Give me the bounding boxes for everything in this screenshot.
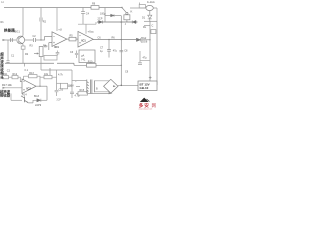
capacitor C2 coupling [34, 38, 36, 42]
svg-text:R2: R2 [43, 21, 47, 24]
svg-text:R3: R3 [30, 44, 34, 47]
wire vertical x105 [104, 8, 106, 22]
svg-text:IC1: IC1 [82, 39, 87, 43]
transformer secondary [93, 81, 95, 93]
op-amp IC2 polarity marks [23, 82, 25, 91]
wire vertical x72 [71, 70, 73, 92]
wire y83 link [57, 82, 61, 84]
wire pot bottom [40, 57, 42, 71]
wire vertical x8 [7, 40, 9, 61]
op-amp IC1b triangle [78, 31, 93, 47]
svg-text:J: J [125, 23, 127, 26]
wire vertical x41 bias feed [40, 8, 42, 41]
svg-text:+Ucc: +Ucc [88, 30, 95, 34]
resistor R13 feedback box [29, 75, 38, 78]
svg-text:接收器: 接收器 [0, 93, 11, 98]
wire 220V input [72, 81, 87, 87]
wire top rail right section [130, 7, 146, 9]
bridge plus mark [113, 85, 116, 87]
bridge rectifier diamond [104, 79, 118, 93]
box small mid-left [44, 56, 57, 61]
wire C2 to node [36, 39, 41, 41]
svg-text:BG3: BG3 [34, 95, 40, 98]
op-amp1 polarity marks [53, 37, 55, 44]
capacitor C7 vertical x109 [107, 40, 111, 58]
transistor BG3 [24, 97, 26, 103]
transformer B primary [87, 80, 89, 94]
svg-text:BG1: BG1 [15, 30, 21, 34]
node x41 y40 [40, 39, 41, 40]
svg-text:R1: R1 [1, 21, 5, 24]
wire to IC2 inv input [9, 77, 23, 81]
svg-text:R14: R14 [22, 93, 27, 96]
resistor R10 on mid bus [87, 64, 97, 68]
wire bridge to battery [118, 84, 138, 86]
wire relay drive bus y22 [97, 21, 138, 23]
wire y25.5 right stub [144, 25, 150, 27]
node output x121 [121, 39, 122, 40]
svg-text:头: 头 [0, 74, 4, 79]
svg-text:R5: R5 [70, 34, 74, 37]
svg-text:R15: R15 [80, 89, 85, 92]
wire y70 bus [41, 69, 72, 71]
wire lamp row y93.5 [76, 93, 78, 95]
svg-text:741: 741 [81, 58, 86, 62]
svg-text:R2: R2 [25, 53, 29, 56]
node bridge bus x150 [149, 84, 151, 86]
svg-text:R10: R10 [88, 61, 93, 64]
diode D3 on y15.5 [111, 14, 114, 17]
block RP box [79, 50, 95, 63]
svg-text:R12: R12 [13, 73, 18, 76]
tick below bus x24 [24, 63, 26, 66]
svg-text:0~1mA: 0~1mA [147, 1, 155, 4]
capacitor C5 mid [56, 51, 60, 56]
node bridge bus x121 [121, 85, 123, 87]
svg-text:47μ: 47μ [113, 50, 118, 53]
svg-text:2CP: 2CP [57, 99, 62, 101]
capacitor C6 left of box [75, 51, 78, 59]
transistor BG1 collector [19, 36, 23, 39]
resistor R5 series [69, 37, 76, 41]
node rail switch [121, 7, 122, 8]
relay J coil box [124, 15, 130, 20]
wire vertical x57 op-amp1 power [56, 8, 58, 32]
watermark logo black [140, 98, 149, 102]
op-amp2 polarity marks [79, 35, 81, 43]
wire vertical x150 [149, 21, 151, 81]
battery BT box [138, 81, 157, 91]
svg-text:C10: C10 [59, 89, 64, 92]
resistor R15 on y77 [44, 75, 52, 78]
svg-text:IC1: IC1 [55, 45, 60, 49]
resistor R11 box [3, 76, 9, 79]
wire box to x72 [68, 85, 73, 87]
svg-text:C9: C9 [125, 71, 129, 74]
capacitor C4 on x83 [81, 8, 85, 25]
wire vertical x56 lower [56, 76, 58, 90]
meter M ellipse [146, 5, 153, 10]
wire diode to corner [41, 99, 47, 101]
svg-text:R9: R9 [92, 3, 96, 6]
svg-text:RP: RP [44, 46, 48, 49]
capacitor C11 bars [70, 92, 74, 98]
transistor BG1 emitter [19, 41, 23, 44]
wire right border vertical [156, 21, 158, 85]
wire op-amp1 output [67, 38, 69, 40]
svg-text:100μ: 100μ [100, 12, 106, 15]
wire emitter row y100.3 [11, 99, 22, 101]
svg-text:1A: 1A [1, 1, 4, 4]
svg-text:换能器: 换能器 [4, 27, 15, 32]
wire y77 bus [40, 76, 57, 78]
capacitor C8 vertical x121 [119, 50, 123, 52]
wire IC2 plus input [3, 87, 23, 89]
svg-text:+U: +U [58, 28, 62, 32]
svg-text:C2: C2 [33, 35, 37, 38]
diode D5 series output [136, 38, 140, 41]
resistor R12 box [12, 76, 18, 79]
diode D4 on bus right end [132, 20, 136, 23]
resistor box top right [139, 5, 145, 8]
svg-text:www.duoan.net: www.duoan.net [139, 108, 153, 110]
wire secondary to bridge [94, 81, 110, 92]
op-amp IC1a triangle [52, 32, 67, 47]
diode D6 [37, 99, 41, 102]
svg-text:D1: D1 [142, 16, 146, 19]
wire to op-amp1 inverting input [41, 37, 52, 40]
wire IC2 output [36, 85, 47, 87]
wire y21 top right link [144, 20, 157, 22]
svg-text:RL: RL [143, 26, 147, 29]
box lower mid [61, 83, 68, 89]
wire down to transistor [46, 86, 48, 100]
plus mark above battery [149, 76, 152, 79]
wire diode to BG2 [141, 39, 150, 41]
op-amp2 power link y24 [78, 22, 96, 24]
svg-text:C8: C8 [124, 50, 128, 53]
wire op-amp2 power pin [85, 24, 87, 34]
node output x109 [108, 39, 109, 40]
svg-text:1μ: 1μ [100, 50, 103, 53]
svg-text:R17 10k: R17 10k [2, 83, 12, 87]
switch contact circle [126, 12, 128, 14]
svg-text:C: C [152, 24, 154, 27]
svg-text:2AP9: 2AP9 [35, 104, 42, 107]
wire diode to corner [149, 19, 151, 21]
capacitor C1 input [11, 38, 13, 42]
svg-text:220V: 220V [68, 85, 74, 88]
wire y15.5 link [105, 15, 121, 17]
wire mid bus y65 [74, 64, 121, 66]
resistor Re emitter chain [22, 44, 24, 46]
svg-text:IC2: IC2 [27, 87, 32, 91]
svg-text:C1: C1 [11, 54, 15, 57]
svg-text:3DG6: 3DG6 [141, 41, 148, 44]
capacitor C10 bars [55, 90, 59, 96]
diode D2 on bus left end [99, 20, 103, 23]
wire top supply rail [4, 7, 122, 9]
svg-text:C3: C3 [70, 51, 74, 54]
transistor BG1 circle [17, 36, 25, 44]
wire lamp row right arrow [88, 93, 109, 95]
transistor BG1 base bar [18, 37, 20, 42]
wire vertical x121 main [120, 16, 122, 86]
resistor R9 on top rail [91, 6, 99, 10]
wire y60 stub [140, 59, 150, 61]
svg-text:B: B [96, 87, 98, 90]
capacitor C9 x140 [138, 51, 142, 64]
potentiometer wiper arrow [34, 53, 37, 55]
svg-text:K: K [131, 10, 133, 14]
node relay bus x121 [121, 21, 123, 23]
wire meter down [149, 11, 151, 15]
resistor R2 tick on x41 [40, 18, 42, 22]
switch K blade [122, 8, 126, 13]
wire op-amp2 output [93, 39, 136, 41]
svg-text:0.1: 0.1 [25, 69, 29, 72]
resistor R14 on lamp row [78, 92, 88, 95]
input arrow [3, 39, 17, 41]
svg-text:4.7k: 4.7k [58, 74, 63, 77]
wire op-amp1 noninverting input [49, 43, 52, 50]
potentiometer RP1 body [39, 47, 43, 57]
svg-text:网: 网 [152, 102, 157, 109]
svg-text:47μ: 47μ [143, 56, 148, 59]
wire meter to border [154, 8, 158, 21]
node mid bus x121 [121, 65, 122, 66]
label left vertical text [0, 52, 4, 80]
wire vertical x56 short [56, 70, 58, 76]
component box above rail right [139, 3, 141, 5]
svg-text:C4: C4 [86, 12, 90, 15]
watermark logo tail [147, 99, 150, 102]
svg-text:2CP: 2CP [98, 18, 103, 21]
node BG2 base [149, 39, 150, 40]
op-amp IC2 triangle [22, 79, 36, 93]
wire transducer output [25, 39, 33, 41]
resistor R16 between right verticals [151, 30, 156, 34]
svg-text:μA: μA [81, 54, 84, 58]
wire vertical x23 collector feed [22, 8, 24, 36]
svg-text:4.7μ: 4.7μ [75, 95, 80, 98]
wire vertical x50 [49, 68, 51, 78]
wire left bus y63 [5, 63, 74, 65]
transformer core [90, 80, 92, 94]
svg-text:GB-10: GB-10 [140, 86, 149, 90]
svg-text:R13: R13 [29, 72, 34, 75]
capacitor C3 on x8 [6, 61, 9, 63]
wire feedback [24, 76, 41, 86]
wire relay to bus [126, 20, 128, 22]
diode D1 under meter [148, 15, 152, 19]
wire x11 up [10, 94, 12, 101]
node IC2 out [39, 86, 40, 87]
wire R5 to op-amp2 [76, 38, 78, 40]
